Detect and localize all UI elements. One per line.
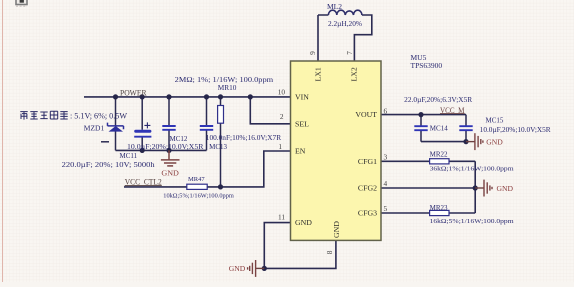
svg-text:CFG3: CFG3 — [358, 209, 377, 218]
resistor MR10 — [218, 106, 224, 124]
svg-text:CFG1: CFG1 — [358, 157, 377, 166]
svg-text:GND: GND — [332, 221, 341, 238]
junction dots (all wire junctions) — [113, 94, 478, 271]
power ground symbol at VOUT bus — [466, 133, 483, 150]
svg-text:LX1: LX1 — [314, 67, 323, 81]
svg-text:MR10: MR10 — [218, 83, 237, 92]
resistor MR47 — [187, 184, 207, 189]
svg-text:MZD1: MZD1 — [84, 124, 105, 133]
svg-text:2: 2 — [280, 112, 284, 121]
svg-text:100.0nF;10%;16.0V;X7R: 100.0nF;10%;16.0V;X7R — [206, 134, 282, 142]
power ground symbol at bottom GND net (points left) — [248, 260, 265, 277]
svg-text:16kΩ;5%;1/16W;100.0ppm: 16kΩ;5%;1/16W;100.0ppm — [430, 218, 514, 225]
wire: VOUT net — [381, 114, 466, 116]
wire: MZD1 top lead — [115, 97, 117, 126]
IC MU5 TPS63900 body — [291, 61, 382, 240]
capacitor MC15 — [459, 126, 472, 130]
wire: MC14 leads — [420, 115, 422, 142]
wire: CFG vertical bus — [474, 161, 476, 213]
wire: MC13 leads — [206, 97, 208, 150]
svg-text:4: 4 — [384, 179, 388, 188]
wire: CFG1 to MR22 — [381, 160, 475, 162]
svg-text:6: 6 — [384, 106, 388, 115]
svg-text:3: 3 — [384, 153, 388, 162]
svg-text:VOUT: VOUT — [355, 110, 377, 119]
sheet border line — [2, 0, 4, 282]
svg-text:22.0µF,20%;6.3V;X5R: 22.0µF,20%;6.3V;X5R — [404, 96, 472, 104]
wire: POWER rail — [84, 96, 291, 98]
svg-text:11: 11 — [278, 213, 285, 222]
wire: MC12 leads — [168, 97, 170, 150]
UI marker box (top-left, cut off) — [16, 0, 27, 6]
svg-text:VCC_CTL2: VCC_CTL2 — [125, 178, 162, 187]
capacitor MC12 — [162, 126, 175, 130]
capacitor MC14 — [414, 126, 427, 130]
svg-text:GND: GND — [497, 184, 514, 193]
wire: MC15 leads — [465, 115, 467, 142]
wire: MC11 leads — [141, 97, 143, 150]
resistor MR23 — [430, 210, 449, 215]
svg-text:POWER: POWER — [120, 87, 147, 97]
svg-text:ML2: ML2 — [327, 2, 342, 11]
svg-text:MC14: MC14 — [430, 125, 448, 133]
svg-text:GND: GND — [486, 138, 503, 147]
wire: CFG3 to MR23 — [381, 212, 475, 214]
svg-text:220.0µF; 20%; 10V; 5000h: 220.0µF; 20%; 10V; 5000h — [62, 161, 155, 169]
svg-text:MR47: MR47 — [188, 176, 205, 183]
wire: ML2 right leg — [354, 15, 371, 61]
zener minus mark — [101, 141, 109, 143]
svg-text:LX2: LX2 — [350, 67, 359, 81]
svg-text:2MΩ; 1%; 1/16W; 100.0ppm: 2MΩ; 1%; 1/16W; 100.0ppm — [175, 75, 274, 84]
note: zener spec (Chinese) 稳压二极管: 5.1V; 6%; 0.5W — [20, 111, 127, 121]
svg-text:MC11: MC11 — [120, 152, 138, 160]
wire: VOUT bottom bus — [421, 141, 466, 143]
svg-text:GND: GND — [295, 218, 312, 227]
svg-text:5: 5 — [384, 204, 388, 213]
svg-text:10kΩ;5%;1/16W;100.0ppm: 10kΩ;5%;1/16W;100.0ppm — [163, 194, 234, 200]
svg-text:10.0µF;20%;10.0V;X5R: 10.0µF;20%;10.0V;X5R — [127, 143, 204, 151]
net label VCC_M underline — [440, 113, 465, 115]
svg-text:9: 9 — [308, 51, 317, 55]
wire: bottom bus to MC13 — [116, 149, 207, 151]
svg-text:MR22: MR22 — [430, 151, 448, 159]
svg-text:: 5.1V; 6%; 0.5W: : 5.1V; 6%; 0.5W — [70, 111, 128, 121]
svg-text:8: 8 — [325, 250, 334, 254]
svg-text:1: 1 — [278, 142, 282, 151]
wire: GND pin 8 — [264, 240, 336, 268]
svg-text:MC13: MC13 — [209, 143, 227, 151]
svg-text:10: 10 — [278, 87, 286, 96]
wire: SEL tap from rail — [250, 97, 290, 124]
resistor MR22 — [430, 159, 449, 164]
svg-text:TPS63900: TPS63900 — [411, 61, 443, 70]
svg-text:MC12: MC12 — [170, 135, 188, 143]
svg-text:EN: EN — [295, 147, 306, 156]
svg-text:CFG2: CFG2 — [358, 184, 377, 193]
net label VCC_CTL2 underline — [125, 184, 162, 186]
wire: ML2 left leg — [318, 15, 328, 61]
capacitor MC13 — [200, 126, 213, 130]
capacitor MC11 (polarized) — [134, 122, 151, 136]
svg-text:2.2µH,20%: 2.2µH,20% — [328, 19, 362, 28]
svg-text:7: 7 — [345, 51, 354, 55]
svg-text:10.0µF,20%;10.0V;X5R: 10.0µF,20%;10.0V;X5R — [480, 126, 551, 134]
svg-text:MR23: MR23 — [430, 204, 448, 212]
svg-text:GND: GND — [161, 169, 179, 178]
svg-text:MC15: MC15 — [486, 117, 504, 125]
power ground symbol at CFG bus — [475, 180, 492, 197]
wire: MZD1 bottom lead — [115, 131, 117, 150]
svg-text:VCC_M: VCC_M — [440, 106, 465, 115]
wire: MR10 leads — [220, 97, 222, 187]
wire: CFG2 — [381, 187, 475, 189]
svg-text:36kΩ;1%;1/16W;100.0ppm: 36kΩ;1%;1/16W;100.0ppm — [430, 165, 514, 172]
svg-text:VIN: VIN — [295, 93, 309, 102]
inductor ML2 — [328, 10, 362, 15]
zener diode MZD1 — [108, 123, 124, 132]
svg-text:SEL: SEL — [295, 119, 309, 128]
ground (earth style) below MC12 — [161, 150, 180, 166]
wire: EN net (pin1 to MR47 to VCC_CTL2) — [124, 151, 291, 187]
wire: GND pin 11 — [264, 223, 290, 269]
svg-text:GND: GND — [229, 264, 246, 273]
